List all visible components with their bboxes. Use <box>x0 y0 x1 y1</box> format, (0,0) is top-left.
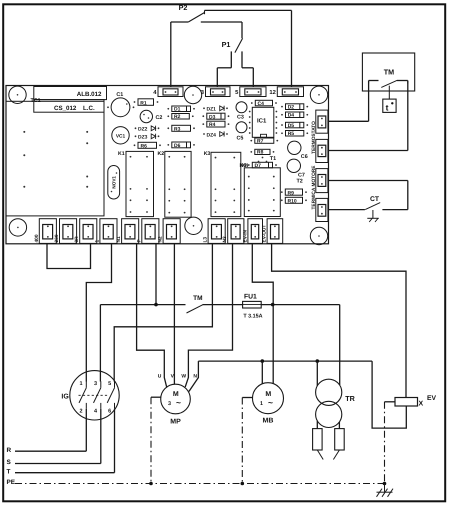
svg-text:K3: K3 <box>204 151 211 157</box>
svg-text:T1: T1 <box>270 156 276 162</box>
svg-text:DZ2: DZ2 <box>138 127 148 133</box>
svg-text:T: T <box>7 468 11 475</box>
svg-text:C4: C4 <box>258 101 265 107</box>
svg-text:TM: TM <box>193 295 202 302</box>
svg-text:12: 12 <box>269 89 275 96</box>
svg-text:VC1: VC1 <box>116 133 126 139</box>
svg-text:D1: D1 <box>174 107 181 113</box>
svg-text:PE: PE <box>7 479 16 486</box>
svg-text:R: R <box>7 447 12 454</box>
svg-text:R1: R1 <box>140 100 147 106</box>
svg-text:K4: K4 <box>242 163 249 169</box>
svg-text:X: X <box>418 401 423 408</box>
svg-text:~: ~ <box>176 398 181 408</box>
svg-text:N3: N3 <box>222 236 228 242</box>
svg-text:W: W <box>181 373 186 379</box>
svg-text:K2: K2 <box>158 151 165 157</box>
svg-text:D6: D6 <box>174 143 181 149</box>
svg-text:1: 1 <box>79 381 82 387</box>
svg-text:U: U <box>158 373 162 379</box>
svg-text:2: 2 <box>79 409 82 415</box>
svg-text:N1: N1 <box>116 236 122 242</box>
svg-text:DZ4: DZ4 <box>207 132 217 138</box>
svg-text:R10: R10 <box>288 199 297 205</box>
svg-text:N: N <box>193 373 197 379</box>
svg-text:400: 400 <box>34 234 40 242</box>
svg-text:~: ~ <box>268 398 273 408</box>
svg-text:EV: EV <box>427 395 437 402</box>
svg-text:C5: C5 <box>237 135 244 141</box>
svg-text:C6: C6 <box>301 154 308 160</box>
svg-text:K1: K1 <box>118 151 125 157</box>
svg-text:5: 5 <box>108 381 111 387</box>
svg-text:6: 6 <box>108 409 111 415</box>
svg-text:0R: 0R <box>74 236 80 243</box>
svg-text:1: 1 <box>94 240 100 243</box>
svg-text:R4: R4 <box>209 122 216 128</box>
svg-text:R8: R8 <box>257 150 264 156</box>
svg-text:CT: CT <box>370 196 380 203</box>
svg-text:R9: R9 <box>288 190 295 196</box>
svg-text:ALB.012: ALB.012 <box>77 91 102 98</box>
svg-text:TC1: TC1 <box>31 98 41 104</box>
svg-text:C2: C2 <box>156 115 163 121</box>
svg-text:IC1: IC1 <box>257 118 267 125</box>
svg-text:D5: D5 <box>288 123 295 129</box>
svg-text:P1: P1 <box>222 40 231 49</box>
svg-text:D2: D2 <box>288 105 295 111</box>
svg-text:P2: P2 <box>179 3 188 12</box>
svg-text:t: t <box>386 102 389 112</box>
svg-text:C1: C1 <box>116 92 123 98</box>
svg-text:3: 3 <box>94 381 97 387</box>
svg-text:FU1: FU1 <box>244 294 257 301</box>
svg-text:R6: R6 <box>141 144 148 150</box>
svg-text:MB: MB <box>263 418 274 425</box>
svg-text:230: 230 <box>54 234 60 242</box>
svg-text:TERMOSTATO: TERMOSTATO <box>311 121 317 154</box>
svg-text:MP: MP <box>170 419 181 426</box>
svg-text:TERMICA MOTORE: TERMICA MOTORE <box>311 165 317 210</box>
svg-text:L.C.: L.C. <box>83 105 95 112</box>
svg-text:1: 1 <box>260 401 263 407</box>
svg-text:R2: R2 <box>174 114 181 120</box>
svg-text:L3: L3 <box>203 237 209 243</box>
svg-text:S: S <box>7 459 12 466</box>
svg-text:T 3.15A: T 3.15A <box>243 314 262 320</box>
svg-text:R5: R5 <box>288 131 295 137</box>
svg-text:D4: D4 <box>288 113 295 119</box>
svg-text:C3: C3 <box>237 114 244 120</box>
svg-text:R7: R7 <box>257 139 264 145</box>
svg-text:EV-IN: EV-IN <box>242 229 248 242</box>
svg-text:CS_012: CS_012 <box>54 105 77 112</box>
svg-text:N2: N2 <box>158 236 164 242</box>
svg-text:TR: TR <box>345 394 355 403</box>
svg-text:TM: TM <box>384 67 394 76</box>
svg-text:C7: C7 <box>298 172 305 178</box>
svg-text:R3: R3 <box>174 127 181 133</box>
svg-text:EV-OUT: EV-OUT <box>262 225 268 243</box>
svg-text:NOV1: NOV1 <box>112 176 117 189</box>
svg-text:DZ3: DZ3 <box>138 135 148 141</box>
svg-text:D3: D3 <box>209 114 216 120</box>
svg-text:3: 3 <box>168 401 171 407</box>
svg-text:T2: T2 <box>297 179 303 185</box>
svg-text:DZ1: DZ1 <box>207 107 217 113</box>
svg-text:IG: IG <box>61 394 69 401</box>
